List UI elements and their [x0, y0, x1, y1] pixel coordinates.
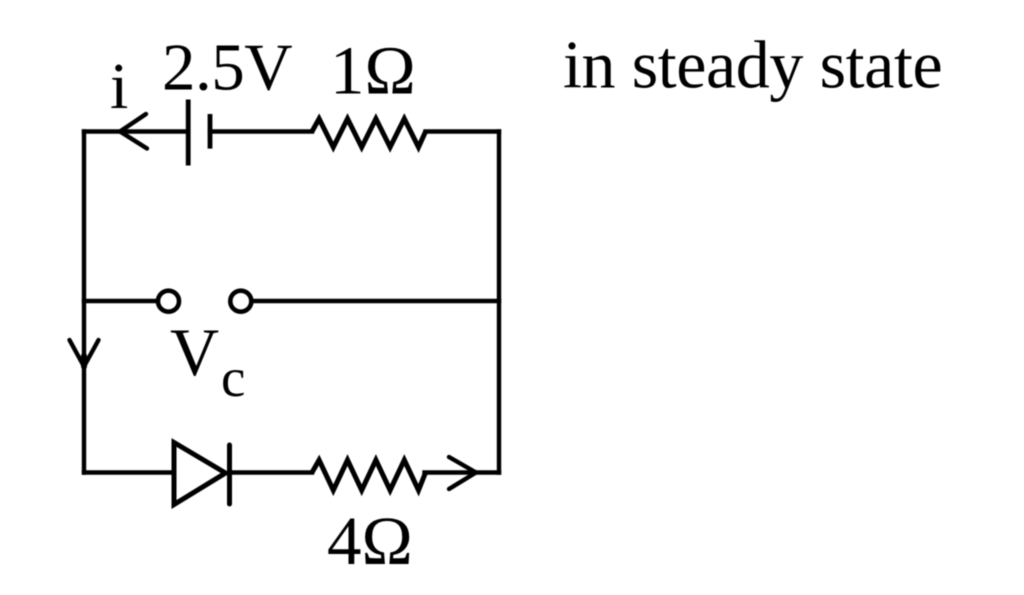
svg-text:2.5V: 2.5V: [162, 31, 292, 105]
svg-text:4Ω: 4Ω: [327, 503, 413, 579]
svg-text:1Ω: 1Ω: [330, 33, 416, 109]
svg-text:i: i: [110, 50, 128, 123]
svg-text:V: V: [170, 314, 219, 390]
svg-text:in steady state: in steady state: [563, 27, 942, 103]
svg-text:c: c: [221, 347, 245, 408]
